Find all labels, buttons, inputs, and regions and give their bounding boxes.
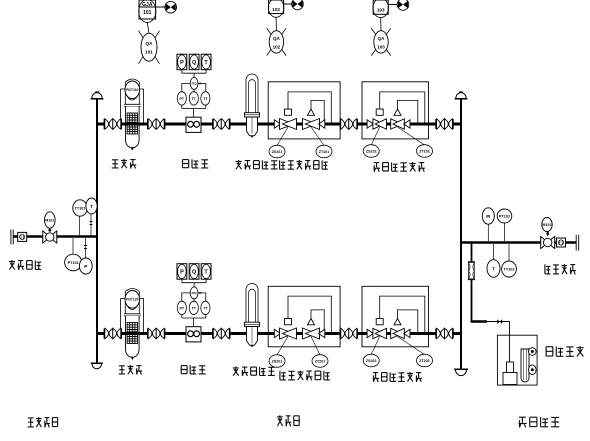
svg-text:T: T [90,204,93,209]
wire: right header vertical pipe [460,99,462,369]
svg-text:FIQ: FIQ [192,291,198,295]
wire: outlet pipe [461,241,576,244]
odorizer tank [503,362,517,385]
label outlet unit [519,417,560,427]
odorizer dosing cylinder [521,349,529,382]
svg-text:Q: Q [192,60,197,66]
label LiuLiangJi (flow meter) upper [183,159,209,168]
svg-text:ZS101: ZS101 [272,150,283,154]
label outlet station header [545,264,576,274]
right header bottom drain cap [454,369,468,375]
label main unit [277,415,299,426]
odorizer unit boundary box [497,335,537,385]
svg-text:PDT120: PDT120 [126,298,139,302]
wire: odorizer branch lower drop [471,280,473,323]
svg-text:T: T [492,267,495,272]
valve V4l (double block valve) [340,328,357,338]
wire: left header vertical pipe [96,99,98,363]
svg-text:103: 103 [377,8,385,13]
svg-text:102: 102 [273,44,281,49]
svg-text:PT: PT [180,306,185,310]
svg-text:Q: Q [192,270,197,276]
svg-text:P: P [84,264,87,269]
flow meter FE2 (lower) with instrument tree P/Q/T + FIQ + PT/TT/TT [177,264,211,342]
label second-stage regulator lower [373,372,422,382]
water-bath heat exchanger E1 (upper) [245,74,260,138]
svg-text:PT101: PT101 [68,261,79,265]
outlet pipe-break symbol [576,235,579,251]
svg-text:QA: QA [146,41,154,46]
small valve on odorizer feed [497,319,502,324]
valve V5u (double block valve) [436,119,453,129]
svg-text:ZT202: ZT202 [419,359,429,363]
wire: inlet pipe [13,235,97,238]
gas detector group GJA102 with valve and alarm QA102 [267,0,304,56]
svg-text:QA: QA [273,36,281,41]
motor valve M101 on inlet [43,212,57,243]
valve V1u (double block valve) [104,119,121,129]
svg-text:PT: PT [180,97,185,101]
first-stage regulator unit (lower): slam-shut ZS201 + regulator ZT201 [268,286,340,367]
svg-text:ZT101: ZT101 [319,150,329,154]
svg-text:PDT110: PDT110 [126,88,138,92]
valve V5l (double block valve) [436,328,453,338]
label LiuLiangJi (flow meter) lower [181,365,205,374]
svg-text:ZS202: ZS202 [366,359,377,363]
water-bath heat exchanger E2 (lower) [245,284,260,348]
svg-text:QA: QA [378,36,386,41]
svg-text:10: 10 [199,82,203,86]
temperature transmitter TT102 (outlet) [502,244,517,277]
temperature indicator T (inlet) [86,198,97,235]
valve V2l (double block valve) [148,328,165,338]
valve V3l (double block valve) [213,328,230,338]
label odorizer unit [546,346,584,356]
svg-text:103: 103 [377,44,385,49]
valve V3u (double block valve) [213,119,230,129]
second-stage regulator unit (upper): slam-shut ZS102 + regulator ZT102 [362,82,433,158]
temperature transmitter TT101 (inlet) [73,200,87,235]
insulating joint J1 on inlet [18,232,27,241]
label GuoLvQi (filter) lower [119,365,142,375]
vertical valve on odorizer branch [468,262,475,279]
second-stage regulator unit (lower): slam-shut ZS202 + regulator ZT202 [362,286,433,367]
svg-text:ZT201: ZT201 [315,359,325,363]
gas detector group GJA101 with valve and alarm QA101 [139,0,177,64]
svg-text:102: 102 [272,7,280,12]
label inlet station header [9,260,41,270]
valve V4u (double block valve) [340,119,357,129]
svg-text:TT102: TT102 [504,268,515,272]
label water-bath heat exchanger lower [233,367,275,377]
gas detector group GJA103 with valve and alarm QA103 [371,0,409,56]
label first-stage regulator lower [280,371,330,381]
odorizer pump circles [529,348,537,375]
left header bottom drain cap [91,363,103,369]
motor valve M102 on outlet [541,218,555,249]
svg-text:M102: M102 [543,223,552,227]
wire: lower main pipe [97,332,461,335]
filter F2 (lower) with DP transmitter PDT120 [121,289,144,361]
svg-text:PI: PI [486,214,490,219]
wire: odorizer branch horizontal run [471,320,487,322]
svg-text:ZS201: ZS201 [272,359,283,363]
pressure indicator PI (outlet) [482,208,494,241]
inlet pipe-break symbol [11,230,13,245]
left header top vent cap [91,92,104,99]
label inlet unit [28,417,58,427]
pressure transmitter PT101 (inlet) [65,238,82,271]
svg-text:ZS102: ZS102 [366,149,377,153]
svg-text:101: 101 [145,50,153,55]
label first-stage regulator upper [280,160,328,170]
svg-text:TT101: TT101 [75,207,86,211]
right header top vent cap [455,92,468,99]
temperature indicator T (outlet) [487,244,500,277]
pressure indicator P (inlet) [79,238,92,274]
svg-text:FIQ: FIQ [192,82,198,86]
label water-bath heat exchanger upper [236,160,278,170]
wire: odorizer branch drop from outlet pipe [471,243,473,262]
svg-text:M101: M101 [45,219,54,223]
first-stage regulator unit (upper): slam-shut ZS101 + regulator ZT101 [268,82,340,158]
valve V1l (double block valve) [104,328,121,338]
svg-text:P: P [180,270,184,276]
insulating joint J2 on outlet [557,238,566,247]
wire: drop into odorizer unit [509,322,511,363]
label second-stage regulator upper [374,162,426,172]
svg-text:P: P [180,60,184,66]
valve V2u (double block valve) [148,119,165,129]
svg-text:10: 10 [199,291,203,295]
filter F1 (upper) with DP transmitter PDT110 [121,79,144,151]
svg-text:PT102: PT102 [499,215,510,219]
svg-text:ZT102: ZT102 [419,149,429,153]
flow meter FE1 (upper) with instrument tree P/Q/T + FIQ + PT/TT/TT [177,54,211,132]
label GuoLvQi (filter) upper [112,159,137,169]
wire: upper main pipe [97,123,461,126]
pressure transmitter PT102 (outlet) [497,209,512,241]
svg-text:101: 101 [143,10,152,16]
